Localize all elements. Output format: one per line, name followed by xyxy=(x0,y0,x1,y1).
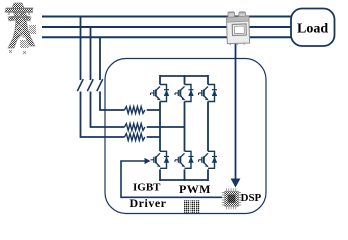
svg-text:Load: Load xyxy=(297,22,328,37)
IGBT Q4 with diode D4 xyxy=(151,151,170,168)
svg-text:PWM: PWM xyxy=(179,182,211,196)
wire drop phase C xyxy=(100,37,160,110)
IGBT Q2 with diode D2 xyxy=(175,85,194,102)
breaker switch S2 xyxy=(87,79,93,91)
grid pylon icon xyxy=(5,3,36,54)
inductor L2 xyxy=(125,124,145,131)
bus wire phase C xyxy=(42,36,291,38)
IGBT label xyxy=(133,182,161,194)
PWM modulator icon xyxy=(184,200,200,213)
IGBT Q3 with diode D3 xyxy=(199,85,218,102)
bus wire phase B xyxy=(42,26,291,28)
dc bus bottom rail xyxy=(160,179,208,181)
converter enclosure box xyxy=(105,59,266,214)
IGBT Q6 with diode D6 xyxy=(199,151,218,168)
Driver label xyxy=(130,196,167,210)
breaker switch S3 xyxy=(97,79,103,91)
svg-text:Driver: Driver xyxy=(130,196,167,210)
svg-text:DSP: DSP xyxy=(241,192,262,204)
Load label xyxy=(297,22,328,37)
current sensor icon xyxy=(227,11,250,45)
leg wire phase 2 xyxy=(184,75,186,181)
breaker switch S1 xyxy=(77,79,83,91)
IGBT Q5 with diode D5 xyxy=(175,151,194,168)
DSP label xyxy=(241,192,262,204)
inductor L3 xyxy=(125,134,145,141)
PWM label xyxy=(179,182,211,196)
Load box xyxy=(291,9,335,47)
DSP chip icon xyxy=(222,188,241,209)
leg wire phase 3 xyxy=(207,75,209,181)
svg-text:IGBT: IGBT xyxy=(133,182,161,194)
dc bus top rail xyxy=(160,75,208,77)
driver to gate wire with arrow xyxy=(121,158,222,197)
inductor L1 xyxy=(125,107,145,114)
leg wire phase 1 xyxy=(159,75,161,181)
wire drop phase B xyxy=(91,27,185,127)
current sensor to DSP wire with arrow xyxy=(231,43,241,188)
IGBT Q1 with diode D1 xyxy=(151,85,170,102)
wire drop phase A xyxy=(81,17,161,138)
bus wire phase A xyxy=(42,16,291,18)
